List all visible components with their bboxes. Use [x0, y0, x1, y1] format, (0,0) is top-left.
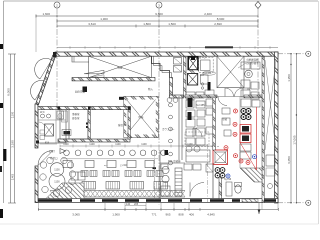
- square tables row: [63, 161, 72, 168]
- svg-text:のぼり梯子: のぼり梯子: [246, 61, 259, 65]
- dumbwaiter: [45, 124, 54, 136]
- wall end cap: [53, 52, 57, 58]
- svg-text:771: 771: [151, 213, 156, 217]
- right narrow room diagonal: [265, 60, 276, 150]
- svg-text:小屋裏収納: 小屋裏収納: [246, 58, 259, 62]
- interior wall B vertical: [170, 78, 173, 97]
- svg-text:17,065: 17,065: [293, 135, 297, 145]
- wall x160 extension: [159, 150, 161, 163]
- svg-text:9,600: 9,600: [155, 12, 163, 16]
- top dimension line 2: [57, 20, 258, 22]
- interior wall C horizontal: [170, 95, 184, 98]
- entrance door arc: [38, 151, 53, 166]
- X void box 3: [124, 97, 158, 138]
- right col equipment: [241, 62, 250, 69]
- red framed equipment: [240, 125, 251, 134]
- bottom right arrow: [258, 203, 260, 214]
- svg-text:3,610: 3,610: [88, 22, 96, 26]
- red circled numbers: [234, 109, 238, 113]
- gas range rings: [241, 109, 246, 114]
- grid marker diamond: [255, 2, 261, 9]
- dark equipment: [188, 96, 193, 107]
- counter stools column: [169, 103, 173, 107]
- diagonal entrance wall: [36, 55, 56, 104]
- stair X box: [217, 56, 244, 87]
- right room fixtures: [266, 155, 275, 166]
- left exterior wall: [35, 104, 38, 148]
- EV shaft: [188, 57, 198, 70]
- svg-text:Sx=485: Sx=485: [196, 104, 205, 107]
- svg-text:フード: フード: [199, 56, 207, 60]
- svg-text:1100: 1100: [54, 181, 60, 184]
- island top circles: [186, 146, 192, 152]
- svg-text:1,800: 1,800: [143, 22, 151, 26]
- edge blobs: [0, 44, 3, 49]
- bottom extension lines: [38, 203, 40, 210]
- grid line v2: [56, 8, 58, 110]
- interior wall band A: [72, 78, 155, 81]
- svg-text:965: 965: [165, 213, 170, 217]
- stove rings: [215, 168, 220, 173]
- grid marker A right top: [306, 51, 311, 56]
- wc block: [38, 110, 66, 143]
- svg-text:1,300: 1,300: [100, 17, 108, 21]
- svg-text:い=40: い=40: [120, 164, 127, 167]
- kitchen equipment boxes: [186, 92, 195, 99]
- entrance door arcs: [35, 58, 52, 79]
- interior wall y105: [38, 107, 131, 110]
- chair circles row: [64, 150, 70, 156]
- top dimension line 1: [36, 15, 258, 17]
- svg-text:1,900: 1,900: [112, 213, 120, 217]
- svg-text:808: 808: [178, 213, 183, 217]
- svg-text:140: 140: [126, 203, 131, 206]
- svg-text:事務室: 事務室: [72, 112, 80, 116]
- grid marker B right bottom: [306, 200, 311, 205]
- svg-text:UP: UP: [247, 88, 251, 91]
- svg-text:DN: DN: [200, 74, 204, 77]
- grid aux line x207: [207, 144, 209, 203]
- double sink top: [167, 98, 172, 103]
- extension line x36: [35, 15, 37, 53]
- svg-text:物入: 物入: [148, 87, 154, 91]
- black equip at band end: [83, 87, 88, 93]
- grid marker 2: [54, 2, 60, 8]
- svg-text:客席 52: 客席 52: [118, 123, 127, 127]
- svg-text:2,190: 2,190: [12, 111, 15, 118]
- kitchen lower walls: [159, 163, 161, 199]
- aux vertical light line: [154, 150, 156, 203]
- wall x262 vertical: [262, 56, 264, 203]
- svg-text:DW-冷蔵庫: DW-冷蔵庫: [168, 159, 181, 163]
- interior wall y139: [58, 139, 130, 142]
- kitchen door arc mid: [193, 128, 202, 137]
- svg-text:2,400: 2,400: [204, 12, 212, 16]
- svg-text:3,190: 3,190: [11, 140, 15, 148]
- corner hatch block: [240, 168, 262, 182]
- grid marker 3: [156, 2, 162, 8]
- booth seat pairs: [81, 171, 88, 177]
- kitchen north wall band: [185, 95, 217, 98]
- svg-text:冷蔵: 冷蔵: [222, 117, 228, 121]
- sink circles lower: [162, 166, 169, 173]
- stepped wall: [152, 56, 170, 77]
- svg-text:1100: 1100: [115, 143, 121, 146]
- corridor door arcs: [225, 88, 234, 97]
- PS shafts: [174, 58, 182, 65]
- svg-text:1100: 1100: [187, 143, 193, 146]
- svg-text:Sy=96: Sy=96: [224, 178, 232, 181]
- svg-text:6,050: 6,050: [287, 156, 291, 164]
- svg-text:4,845: 4,845: [207, 213, 215, 217]
- right dim lines: [278, 53, 306, 55]
- top dimension line 3: [57, 25, 258, 27]
- grid line v4: [257, 9, 259, 96]
- top wall recess: [72, 56, 89, 62]
- svg-text:2,690: 2,690: [214, 22, 222, 26]
- svg-text:406: 406: [189, 213, 194, 217]
- island bench: [186, 150, 210, 162]
- left dim lines: [10, 54, 12, 203]
- wall x219 lower: [219, 177, 222, 199]
- wall left of shafts: [184, 56, 187, 96]
- wedge counter: [84, 70, 104, 74]
- svg-text:非常口: 非常口: [50, 156, 58, 160]
- lower kitchen door arc: [190, 183, 204, 197]
- office room: [60, 110, 88, 139]
- shaft 2: [188, 74, 198, 86]
- striped bench rects: [82, 182, 96, 190]
- prep tables: [184, 164, 192, 170]
- svg-text:3,065: 3,065: [72, 213, 80, 217]
- svg-text:カウンター: カウンター: [162, 127, 175, 131]
- svg-text:1100: 1100: [54, 169, 60, 172]
- grid line v3: [158, 8, 160, 205]
- svg-text:1,500: 1,500: [168, 22, 176, 26]
- svg-text:1100: 1100: [63, 143, 69, 146]
- svg-text:205: 205: [134, 203, 139, 206]
- svg-text:1,600: 1,600: [42, 12, 50, 16]
- lower-right fixtures: [235, 185, 241, 193]
- svg-text:3,405: 3,405: [12, 173, 15, 180]
- svg-text:▪▪ ▪: ▪▪ ▪: [104, 165, 107, 168]
- aisle wall hatched: [213, 98, 216, 150]
- svg-text:1100: 1100: [141, 143, 147, 146]
- bottom exterior wall: [36, 199, 278, 203]
- svg-text:1100: 1100: [89, 143, 95, 146]
- chairs around tables: [40, 162, 46, 168]
- aisle equipment: [222, 108, 230, 114]
- bottom dim line: [38, 209, 278, 211]
- svg-text:厨房営業: 厨房営業: [75, 90, 86, 94]
- dashed lines kitchen: [185, 96, 262, 98]
- canopy line: [57, 47, 278, 49]
- passage arcs top: [218, 97, 227, 106]
- page border: [3, 1, 5, 203]
- ladder stair: [175, 168, 182, 196]
- red marker line: [256, 107, 258, 170]
- wall right of office: [88, 110, 90, 139]
- X void box 1: [89, 56, 152, 77]
- red equip boxes lower: [240, 144, 251, 151]
- extra lower equipment: [161, 164, 168, 169]
- red X dumbwaiter: [213, 150, 228, 165]
- mini dim: [125, 205, 146, 207]
- right exterior wall: [275, 52, 279, 203]
- X truss band: [50, 190, 185, 192]
- svg-text:吹抜: 吹抜: [117, 66, 123, 70]
- top exterior wall: [55, 52, 278, 56]
- svg-text:更衣室: 更衣室: [72, 116, 80, 120]
- dashed hood: [199, 58, 214, 73]
- svg-text:8,600: 8,600: [217, 17, 225, 21]
- blue circled numbers: [253, 155, 257, 159]
- counter edge vertical: [178, 96, 180, 160]
- svg-text:W.C: W.C: [40, 111, 45, 114]
- svg-text:1,950: 1,950: [287, 74, 291, 82]
- round table 2: [49, 174, 65, 190]
- svg-text:吹抜: 吹抜: [138, 115, 144, 119]
- seating dim row: [60, 145, 213, 147]
- svg-text:8,000: 8,000: [7, 88, 11, 96]
- hatched ramp: [46, 183, 84, 199]
- round table 1: [50, 163, 64, 177]
- ENT arrow: [60, 149, 66, 154]
